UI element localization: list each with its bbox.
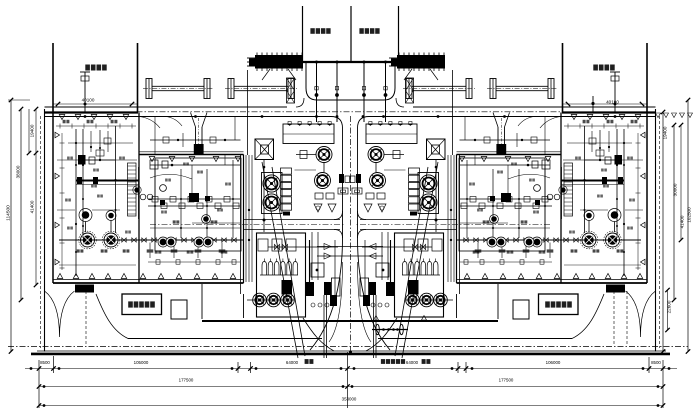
svg-text:8500: 8500 [651,360,661,365]
svg-text:40100: 40100 [82,98,95,103]
svg-text:106000: 106000 [546,360,561,365]
svg-text:38000: 38000 [16,165,21,178]
svg-text:102500: 102500 [687,207,692,223]
svg-text:30000: 30000 [673,183,678,196]
svg-text:64000: 64000 [286,360,299,365]
svg-text:40100: 40100 [606,100,619,105]
svg-text:19400: 19400 [30,124,35,137]
svg-text:8500: 8500 [40,360,50,365]
svg-text:19400: 19400 [663,126,668,139]
svg-text:105000: 105000 [134,360,149,365]
svg-text:177500: 177500 [499,378,514,383]
svg-text:114500: 114500 [6,205,12,221]
svg-text:177500: 177500 [179,378,194,383]
svg-text:353000: 353000 [342,397,357,402]
svg-text:41400: 41400 [680,215,685,228]
svg-text:64000: 64000 [406,360,419,365]
svg-text:41400: 41400 [30,200,35,213]
